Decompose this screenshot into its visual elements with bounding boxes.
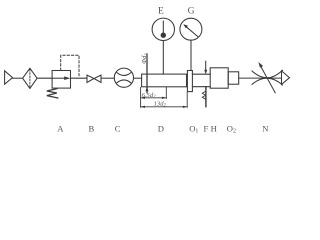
6.5d2 left arrowhead	[141, 97, 145, 99]
dimension extension line (nozzle inlet plane)	[186, 92, 188, 107]
regulator spring	[47, 89, 58, 98]
svg-text:E: E	[158, 6, 164, 16]
filter element dashed line	[29, 70, 31, 88]
regulator flow arrow	[52, 77, 64, 79]
wire: valve B to meter C	[101, 77, 114, 79]
svg-text:B: B	[89, 123, 95, 133]
regulator pilot line (dashed)	[61, 55, 79, 78]
meter C top arc	[116, 72, 131, 75]
pipe segment between O1 and H (top wall)	[192, 73, 210, 75]
probe F upper stem	[205, 61, 207, 70]
air inlet triangle (component A group)	[5, 71, 13, 84]
13d2 right arrowhead	[183, 106, 187, 108]
probe F spring marks	[202, 91, 205, 99]
phi-d2 diameter line (bold)	[146, 54, 148, 93]
13d2 left arrowhead	[141, 106, 145, 108]
dimension extension line (6.5d2 plane)	[165, 87, 167, 98]
svg-text:A: A	[57, 123, 64, 133]
pressure gauge G needle head	[183, 24, 188, 28]
exhaust triangle N	[282, 71, 290, 85]
thermometer E stem	[162, 41, 164, 75]
wire: regulator to valve B	[71, 77, 88, 79]
svg-text:C: C	[115, 123, 121, 133]
throttle valve N adjustment arrowhead	[258, 62, 263, 68]
approach tube D	[142, 74, 187, 87]
svg-text:G: G	[188, 6, 195, 16]
svg-text:F: F	[204, 123, 209, 133]
svg-text:H: H	[211, 123, 217, 133]
throttle valve N lower arc	[252, 78, 283, 85]
orifice plate O1 (flange)	[187, 71, 192, 92]
gas meter C (circle)	[114, 68, 133, 87]
throttle valve N upper arc	[252, 70, 283, 78]
pressure gauge G stem	[190, 40, 192, 70]
thermometer E (circle)	[152, 18, 174, 40]
pressure gauge G needle	[185, 25, 198, 36]
svg-text:N: N	[262, 123, 269, 133]
probe F arrowhead	[204, 70, 207, 74]
shut-off valve B (bowtie)	[87, 75, 94, 82]
probe F lower stem (bold)	[205, 87, 207, 107]
filter (diamond with dashed element)	[23, 68, 37, 88]
throttle valve N adjustment arrow shaft	[261, 67, 275, 93]
wire: meter C to tube D	[134, 77, 142, 79]
thermometer E needle	[162, 21, 164, 35]
nozzle outlet O2 (small block)	[228, 72, 239, 84]
6.5d2 right arrowhead	[162, 97, 166, 99]
phi-d2 lower arrowhead	[146, 87, 149, 91]
wire: nozzle outlet to throttle N	[239, 77, 282, 79]
thermometer E bulb	[161, 33, 166, 38]
dimension extension line (tube inlet plane)	[140, 88, 142, 108]
wire: inlet triangle to filter	[13, 77, 23, 79]
svg-text:D: D	[158, 123, 164, 133]
pipe segment between O1 and H (bottom wall)	[192, 86, 210, 88]
meter C bottom arc	[116, 80, 131, 83]
dimension line 13d2	[141, 106, 188, 108]
wire: filter to regulator	[37, 77, 52, 79]
nozzle holder H (block)	[210, 68, 228, 88]
pressure gauge G (circle)	[180, 18, 202, 40]
pressure regulator A (square body)	[52, 71, 70, 89]
dimension line 6.5d2	[141, 97, 167, 99]
